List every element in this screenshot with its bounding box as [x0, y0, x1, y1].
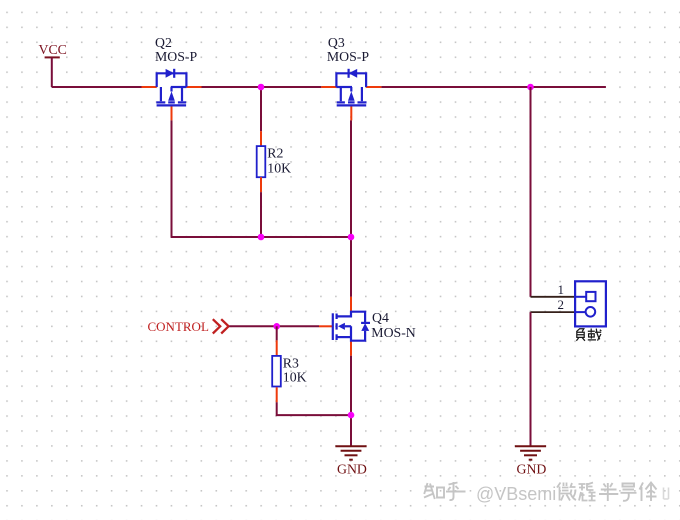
ground GND under Q4	[335, 446, 366, 459]
transistor Q4	[333, 312, 370, 341]
watermark trailing mark	[664, 488, 669, 500]
watermark glyph 碧	[579, 483, 596, 501]
connector pin 2 pad (circle)	[575, 307, 595, 317]
svg-text:Q4: Q4	[372, 310, 389, 325]
svg-text:2: 2	[558, 297, 565, 312]
watermark glyph 半	[599, 483, 618, 501]
wire R3 lower	[277, 402, 351, 415]
transistor Q2 pin source	[142, 86, 157, 88]
resistor R3 pin 2	[276, 387, 278, 402]
junction node gate-R2	[258, 234, 265, 241]
transistor Q4 pin drain	[350, 297, 352, 312]
wire gate net horizontal	[171, 236, 351, 238]
resistor R2 pin 1	[260, 131, 262, 146]
watermark glyph 体	[640, 483, 657, 502]
svg-text:R2: R2	[267, 146, 283, 161]
wire gate net vertical below Q3	[350, 120, 352, 237]
wire R2 lower	[260, 192, 262, 237]
svg-text:GND: GND	[517, 461, 547, 476]
connector pin 2 wire	[531, 311, 576, 313]
wire VCC stem	[51, 57, 53, 87]
wire load branch vertical upper	[530, 87, 532, 297]
watermark glyph 微	[557, 483, 576, 501]
wire CONTROL to gate	[229, 325, 319, 327]
wire R3 upper	[276, 326, 278, 340]
transistor Q2	[156, 69, 186, 106]
svg-text:@VBsemi: @VBsemi	[476, 484, 556, 504]
wire R2 upper	[260, 87, 262, 131]
svg-text:MOS-P: MOS-P	[327, 49, 369, 64]
transistor Q2 pin gate	[171, 105, 173, 120]
transistor Q2 pin drain	[186, 86, 201, 88]
power port VCC	[39, 42, 67, 57]
svg-text:CONTROL: CONTROL	[148, 319, 209, 334]
transistor Q3 pin source	[321, 86, 336, 88]
watermark glyph 知	[424, 483, 444, 499]
wire VCC rail left segment	[52, 86, 142, 88]
watermark glyph 乎	[446, 482, 466, 500]
svg-text:10K: 10K	[283, 369, 307, 384]
wire rail Q2 to Q3	[202, 86, 322, 88]
junction node control-R3	[273, 323, 280, 330]
connector J1 body	[575, 281, 606, 326]
transistor Q4 pin source	[350, 341, 352, 356]
junction node gate-Q4	[348, 234, 355, 241]
resistor R3 body	[272, 356, 281, 387]
svg-text:Q2: Q2	[155, 35, 172, 50]
svg-text:R3: R3	[283, 355, 299, 370]
wire gate net vertical below Q2	[171, 120, 173, 237]
svg-text:10K: 10K	[267, 161, 291, 176]
junction node rail-load	[527, 84, 534, 91]
resistor R3 pin 1	[276, 340, 278, 355]
wire rail Q3 to right end	[381, 86, 606, 88]
transistor Q3 pin gate	[350, 105, 352, 120]
svg-text:VCC: VCC	[39, 42, 67, 57]
junction node source-R3	[348, 412, 355, 419]
transistor Q3 pin drain	[366, 86, 381, 88]
svg-text:GND: GND	[337, 461, 367, 476]
svg-text:MOS-N: MOS-N	[371, 325, 415, 340]
svg-text:Q3: Q3	[328, 35, 345, 50]
transistor Q3 (mirrored P-MOS)	[336, 69, 366, 106]
wire load branch vertical lower	[530, 312, 532, 446]
ground GND under load	[515, 446, 546, 459]
junction node rail-R2	[258, 84, 265, 91]
wire Q4 drain riser	[350, 237, 352, 297]
label connector 负载 (load)	[576, 329, 601, 341]
connector pin 1 pad (square)	[575, 292, 595, 301]
watermark glyph 导	[621, 484, 637, 501]
connector pin 1 wire	[531, 296, 576, 298]
wire Q4 source to GND	[350, 356, 352, 446]
transistor Q4 pin gate	[319, 325, 333, 327]
svg-text:MOS-P: MOS-P	[155, 49, 197, 64]
svg-text:1: 1	[558, 282, 565, 297]
resistor R2 pin 2	[260, 177, 262, 192]
resistor R2 body	[257, 146, 266, 177]
port CONTROL chevrons	[213, 319, 229, 333]
